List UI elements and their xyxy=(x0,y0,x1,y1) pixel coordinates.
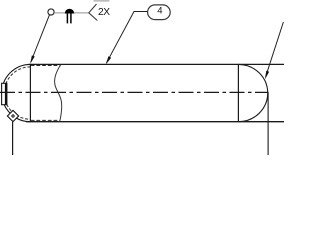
weld symbol leader line xyxy=(31,15,50,62)
balloon 4 xyxy=(148,5,171,20)
right leader arrowhead xyxy=(265,71,269,80)
weld symbol reference line xyxy=(54,12,89,14)
weld symbol vertical tick 2 xyxy=(70,14,72,24)
datum diamond xyxy=(7,110,18,121)
hidden line top (dome skirt) xyxy=(31,65,60,67)
centerline xyxy=(0,91,268,93)
shell bottom line xyxy=(26,121,284,123)
hidden line bottom (dome skirt) xyxy=(31,119,60,121)
balloon leader arrowhead xyxy=(106,56,111,64)
weld symbol leader arrowhead xyxy=(30,55,35,63)
left dome hidden inner arc xyxy=(4,67,30,119)
left extension line xyxy=(12,122,14,155)
left dome outer arc xyxy=(2,64,31,121)
weld symbol vertical tick 1 xyxy=(66,14,68,24)
svg-text:4: 4 xyxy=(157,6,162,17)
right dome arc xyxy=(238,64,267,121)
right extension line xyxy=(267,92,269,155)
weld symbol filled semicircle xyxy=(65,9,74,14)
svg-text:2X: 2X xyxy=(98,7,110,18)
overline above 2X xyxy=(94,0,110,2)
weld symbol all-around circle xyxy=(48,9,54,15)
shell top line xyxy=(29,63,285,65)
port boss thick right edge xyxy=(5,83,7,105)
port boss on dome apex xyxy=(2,83,7,104)
dome joggle S-curve xyxy=(55,64,62,121)
left tangent line xyxy=(29,64,31,121)
balloon leader line xyxy=(107,12,148,63)
weld symbol tail fork xyxy=(89,4,98,21)
right leader line xyxy=(266,22,284,77)
right tangent line xyxy=(237,64,239,121)
datum diamond center mark xyxy=(12,115,15,118)
